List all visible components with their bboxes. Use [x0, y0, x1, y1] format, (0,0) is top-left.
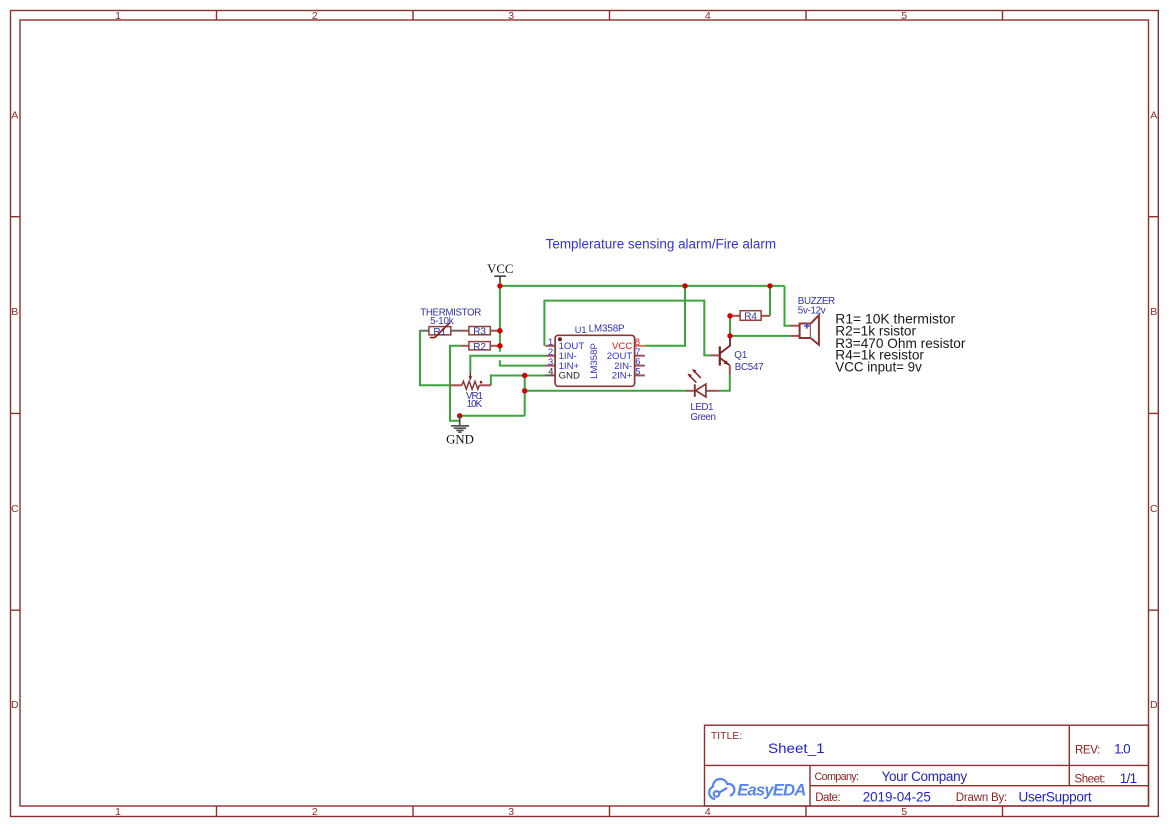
stub VR1 right: [479, 384, 491, 386]
node R3 junction: [497, 328, 502, 333]
stub LED left: [686, 390, 694, 392]
node R4 rail junction: [767, 283, 772, 288]
svg-text:1: 1: [115, 10, 121, 22]
stub VR1 left: [450, 384, 462, 386]
stub LED right: [707, 390, 720, 392]
potentiometer VR1: [462, 372, 483, 389]
svg-text:Q1: Q1: [734, 350, 747, 361]
svg-text:VCC: VCC: [487, 262, 513, 276]
stub Q1 emitter down: [729, 365, 731, 375]
svg-text:D: D: [11, 699, 19, 711]
svg-text:Your Company: Your Company: [882, 769, 968, 784]
svg-text:A: A: [11, 110, 18, 122]
svg-text:R2: R2: [473, 342, 486, 353]
svg-text:VCC input= 9v: VCC input= 9v: [835, 359, 922, 374]
svg-text:3: 3: [548, 357, 553, 367]
VCC power flag: [487, 262, 513, 283]
EasyEDA logo: [709, 779, 734, 799]
stub R2 left: [461, 345, 469, 347]
svg-text:A: A: [1150, 110, 1157, 122]
svg-text:C: C: [11, 503, 19, 515]
svg-text:UserSupport: UserSupport: [1019, 790, 1092, 805]
resistor R3: [469, 327, 490, 338]
svg-text:TITLE:: TITLE:: [711, 731, 742, 742]
stub U1 pin1: [545, 345, 555, 347]
svg-text:Templerature sensing alarm/Fir: Templerature sensing alarm/Fire alarm: [546, 236, 777, 251]
svg-text:B: B: [1150, 306, 1157, 318]
resistor R1 (thermistor body): [429, 323, 451, 338]
op-amp U1 LM358P: [548, 335, 640, 386]
svg-text:2019-04-25: 2019-04-25: [863, 790, 931, 805]
svg-text:1: 1: [548, 337, 553, 347]
svg-text:BC547: BC547: [735, 362, 764, 373]
node LED row junction: [522, 388, 527, 393]
wire VCC rail: [500, 285, 785, 287]
svg-text:EasyEDA: EasyEDA: [737, 781, 806, 800]
svg-text:LM358P: LM358P: [589, 343, 600, 379]
svg-text:R4: R4: [744, 312, 757, 323]
wire R4 right to rail: [769, 286, 771, 316]
svg-text:REV:: REV:: [1075, 744, 1100, 756]
wire pin3 stub: [500, 360, 546, 365]
stub buzzer minus: [790, 335, 799, 337]
svg-text:4: 4: [705, 10, 711, 22]
stub R1 left gray: [421, 330, 429, 332]
stub R4 right: [761, 315, 770, 317]
transistor Q1: [720, 338, 730, 366]
stub R1 right gray: [451, 330, 461, 332]
svg-text:R3: R3: [473, 327, 486, 338]
svg-text:6: 6: [635, 357, 640, 367]
ground: [446, 416, 474, 447]
svg-text:Company:: Company:: [815, 771, 860, 783]
svg-text:3: 3: [508, 806, 514, 818]
svg-text:Date:: Date:: [815, 792, 840, 804]
wire R1 left to VR1 left: [420, 330, 451, 385]
svg-text:B: B: [11, 306, 18, 318]
wire buzzer minus: [730, 335, 790, 337]
svg-text:Drawn By:: Drawn By:: [956, 792, 1007, 804]
node VCC junction: [497, 283, 502, 288]
stub Q1 base: [710, 354, 718, 356]
svg-text:Sheet:: Sheet:: [1075, 774, 1106, 786]
wire vcc column down to R3 R2: [499, 286, 501, 352]
svg-text:LM358P: LM358P: [589, 324, 625, 335]
svg-text:5: 5: [635, 367, 640, 377]
wire GND bottom run: [460, 415, 525, 417]
stub buzzer plus: [790, 325, 799, 327]
svg-text:3: 3: [508, 10, 514, 22]
wire collector to R4 node: [729, 316, 731, 336]
svg-text:5-10k: 5-10k: [430, 316, 454, 327]
resistor R4: [740, 311, 761, 323]
stub U1 pin7: [635, 355, 645, 357]
resistor R2: [469, 342, 490, 353]
svg-text:7: 7: [635, 347, 640, 357]
wire buzzer plus drop: [785, 286, 791, 326]
stub U1 pin5: [635, 374, 645, 376]
wire pin2 to VR1 wiper: [470, 356, 545, 373]
buzzer: [800, 315, 819, 345]
svg-text:Green: Green: [690, 412, 716, 423]
stub R3 left: [460, 330, 469, 332]
svg-text:5: 5: [901, 10, 907, 22]
stub U1 pin8 salmon: [635, 345, 645, 347]
wire pin8 to rail: [645, 286, 685, 346]
LED1 diode: [687, 369, 706, 397]
node pin8 rail junction: [682, 283, 687, 288]
stub U1 pin3: [545, 365, 555, 367]
U1 pin numbers 1-8: [548, 337, 640, 377]
svg-text:8: 8: [635, 337, 640, 347]
node pin4 junction: [522, 373, 527, 378]
stub R3 right: [490, 330, 500, 332]
svg-text:U1: U1: [575, 325, 587, 335]
svg-text:D: D: [1150, 699, 1158, 711]
stub R2 right: [490, 345, 500, 347]
node collector junction: [727, 333, 732, 338]
svg-text:5v-12v: 5v-12v: [798, 305, 826, 316]
node GND junction: [457, 413, 462, 418]
wire LED right corner: [720, 375, 730, 391]
svg-text:2IN+: 2IN+: [612, 371, 633, 382]
svg-text:C: C: [1150, 503, 1158, 515]
title block grid: [705, 725, 1149, 806]
stub U1 pin2: [545, 355, 555, 357]
svg-text:2: 2: [312, 806, 318, 818]
svg-text:1/1: 1/1: [1120, 771, 1137, 786]
title block labels: [711, 731, 1106, 804]
notes text: [835, 311, 966, 374]
wire LED bottom run: [525, 390, 686, 392]
pin stubs maroon: [450, 316, 800, 391]
stub U1 pin6: [635, 365, 645, 367]
svg-text:2: 2: [548, 347, 553, 357]
svg-text:GND: GND: [446, 432, 474, 446]
wire R2 left to GND: [450, 346, 461, 421]
svg-text:1: 1: [115, 806, 121, 818]
svg-text:10K: 10K: [467, 399, 483, 410]
stub R4 left: [730, 315, 740, 317]
wire GND up to pin4: [525, 376, 546, 416]
svg-text:Sheet_1: Sheet_1: [768, 741, 825, 756]
svg-text:GND: GND: [559, 371, 580, 382]
svg-text:1.0: 1.0: [1114, 741, 1131, 756]
svg-text:4: 4: [548, 367, 553, 377]
title block values: [768, 741, 1137, 805]
node R2 junction: [497, 343, 502, 348]
svg-text:5: 5: [901, 806, 907, 818]
svg-text:4: 4: [705, 806, 711, 818]
wire VR1 right up: [491, 376, 525, 386]
wire pin1 to Q1 base: [544, 301, 710, 356]
stub U1 pin4 gray: [545, 374, 555, 376]
svg-text:2: 2: [312, 10, 318, 22]
U1 pin name labels: [559, 341, 633, 382]
junction dots: [457, 283, 773, 418]
node R4 left junction: [727, 313, 732, 318]
